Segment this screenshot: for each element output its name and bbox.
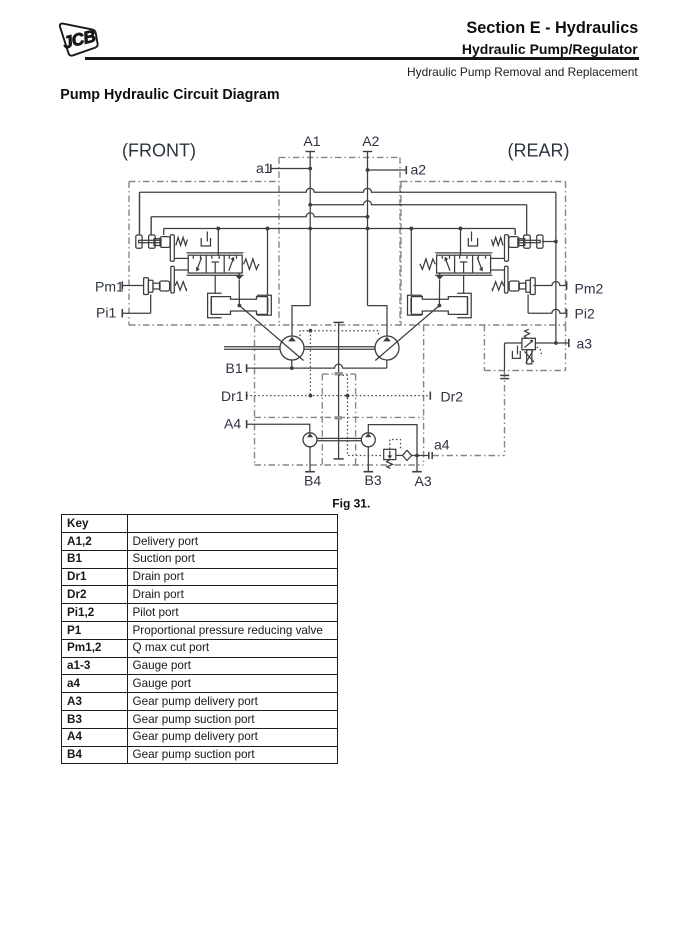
svg-text:Pm1: Pm1	[95, 279, 124, 295]
svg-text:A2: A2	[362, 133, 379, 149]
svg-text:B1: B1	[226, 360, 243, 376]
svg-text:Dr2: Dr2	[441, 389, 464, 405]
svg-text:B3: B3	[365, 472, 382, 488]
svg-text:a3: a3	[577, 336, 593, 352]
svg-text:A3: A3	[415, 473, 432, 489]
svg-text:B4: B4	[304, 473, 321, 489]
svg-text:A4: A4	[224, 416, 241, 432]
svg-text:a1: a1	[256, 160, 272, 176]
svg-text:Pi1: Pi1	[96, 305, 116, 321]
svg-text:(FRONT): (FRONT)	[122, 141, 196, 161]
svg-text:Fig 31.: Fig 31.	[332, 496, 370, 510]
svg-text:a2: a2	[411, 162, 427, 178]
svg-text:Pi2: Pi2	[575, 306, 595, 322]
svg-text:(REAR): (REAR)	[508, 141, 570, 161]
svg-text:Dr1: Dr1	[221, 388, 244, 404]
svg-text:Pm2: Pm2	[575, 281, 604, 297]
svg-text:A1: A1	[303, 133, 320, 149]
svg-text:a4: a4	[434, 437, 450, 453]
